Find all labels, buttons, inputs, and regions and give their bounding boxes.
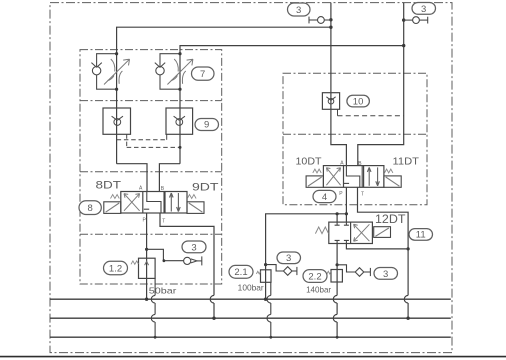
relief valve 1.2 xyxy=(139,258,156,278)
test point M2 wire xyxy=(266,265,284,271)
solenoid 9DT xyxy=(187,202,204,214)
svg-text:10DT: 10DT xyxy=(296,155,323,167)
spring left of valve 8/9 xyxy=(111,195,120,199)
svg-text:T: T xyxy=(361,191,364,197)
check valve 10 in box xyxy=(322,93,339,110)
drain wire of relief 2.1 to L rail xyxy=(267,282,271,337)
wire P of valve 10/11 down to 12DT xyxy=(345,187,347,222)
node joins on drain rail xyxy=(154,336,157,339)
throttle check valve 7 right (flow control) xyxy=(167,59,193,85)
svg-text:140bar: 140bar xyxy=(306,285,331,294)
spring right of valve 10/11 xyxy=(385,169,393,173)
right group dash-dot enclosure xyxy=(283,73,427,204)
test point 3 top-right xyxy=(404,17,428,24)
relief valve 2.1 xyxy=(261,270,272,283)
svg-text:3: 3 xyxy=(286,253,291,264)
svg-text:8: 8 xyxy=(87,203,92,214)
callout 3 (test point M3) xyxy=(374,268,398,280)
left group dash-dot enclosure xyxy=(80,50,222,284)
callout 3 (test point M2) xyxy=(277,252,301,264)
throttle check valve 7 left (flow control) xyxy=(104,59,130,85)
test point 3 top-left xyxy=(309,17,331,24)
svg-text:7: 7 xyxy=(200,69,205,80)
valve 8/9 left position crossed arrows xyxy=(124,194,140,211)
callout 3 (left test point) xyxy=(182,241,206,253)
solenoid 11DT xyxy=(384,176,401,187)
valve 10/11 left position crossed arrows xyxy=(326,168,340,186)
svg-text:3: 3 xyxy=(191,242,196,253)
solenoid 12DT xyxy=(374,227,391,238)
svg-text:3: 3 xyxy=(383,269,388,280)
svg-text:12DT: 12DT xyxy=(375,214,406,226)
wire cylinder line A (left group riser to top rail) xyxy=(117,27,331,164)
relief valve 2.2 xyxy=(331,270,342,283)
pilot operated check valve 9 right xyxy=(166,108,193,134)
wire B jog to valve port B xyxy=(159,164,180,192)
port letters valve 8/9 xyxy=(139,185,165,224)
solenoid 10DT xyxy=(306,176,323,187)
bus T rail xyxy=(50,317,451,319)
wire 12DT T port to right drop xyxy=(346,244,408,249)
node V1 line (right group A side) xyxy=(331,3,347,166)
node V2 line (right group B side) xyxy=(358,3,404,166)
svg-text:9DT: 9DT xyxy=(192,181,219,193)
sheet bottom border line xyxy=(0,356,506,358)
test point M1 wire from P xyxy=(147,249,184,260)
callout 2.2 xyxy=(303,270,327,283)
callout 9 xyxy=(195,119,219,131)
svg-text:10: 10 xyxy=(353,96,364,107)
bus L drain rail xyxy=(50,336,451,338)
svg-text:50bar: 50bar xyxy=(149,286,177,295)
test point M3 xyxy=(355,268,370,277)
wire A jog to valve port A xyxy=(117,164,147,192)
pilot line to right check valve (dashed) xyxy=(117,139,167,141)
svg-text:4: 4 xyxy=(322,192,327,203)
test point M2 xyxy=(283,267,297,276)
callout 7 xyxy=(192,67,215,80)
spring left of valve 10/11 xyxy=(313,169,321,173)
callout 3 top-right xyxy=(412,3,436,15)
callout 4 xyxy=(313,190,336,203)
callout 11 xyxy=(409,229,433,241)
solenoid 8DT xyxy=(104,202,121,214)
drain wire of relief 1.2 to L rail xyxy=(151,278,155,337)
svg-text:2.2: 2.2 xyxy=(308,271,321,282)
svg-text:8DT: 8DT xyxy=(96,179,122,191)
valve 12DT right position crossed arrows xyxy=(354,224,370,241)
directional valve 12DT body xyxy=(329,222,373,243)
callout 10 xyxy=(347,95,370,107)
callout 2.1 xyxy=(229,265,253,278)
spring relief 2.2 xyxy=(327,271,331,274)
pilot line to left check valve (dashed) xyxy=(127,134,180,147)
svg-text:1.2: 1.2 xyxy=(109,263,122,274)
valve 12DT left position blocked ports xyxy=(335,222,349,243)
svg-text:3: 3 xyxy=(421,4,426,15)
spring right of valve 8/9 xyxy=(187,195,196,199)
svg-text:2.1: 2.1 xyxy=(234,267,247,278)
port letters valve 10/11 xyxy=(339,160,364,197)
wire 12DT second top port xyxy=(336,214,338,222)
callout 3 top-left xyxy=(288,3,311,16)
valve 8/9 right position parallel arrows xyxy=(170,193,181,212)
svg-text:11: 11 xyxy=(416,230,426,241)
valve 10/11 right position parallel arrows xyxy=(367,167,379,185)
outer dash-dot frame xyxy=(50,3,452,353)
directional valve 8DT/9DT body xyxy=(121,192,187,214)
pilot operated check valve 9 left xyxy=(103,108,131,134)
directional valve 10DT/11DT body xyxy=(323,166,384,188)
spring left of valve 12DT xyxy=(315,227,328,234)
wire 12DT left port down through relief 2.2 to L rail xyxy=(333,244,337,338)
wire cylinder line B (left group riser to rail 2) xyxy=(180,46,404,164)
svg-text:3: 3 xyxy=(296,5,301,16)
svg-text:T: T xyxy=(162,219,165,225)
callout 8 xyxy=(79,201,101,215)
svg-text:100bar: 100bar xyxy=(238,284,264,293)
wire P branch to relief 2.1 xyxy=(266,214,347,299)
valve 8/9 centre position xyxy=(144,192,164,214)
wire T of valve 10/11 to right drop xyxy=(358,187,409,318)
test point M3 wire xyxy=(337,265,355,272)
pilot line of check valve 10 (dashed to V2) xyxy=(337,109,339,116)
svg-text:9: 9 xyxy=(204,120,209,131)
wire P line of valve 8/9 down to P rail xyxy=(146,213,148,299)
callout 1.2 xyxy=(104,261,128,274)
wire T line of valve 8/9 to T rail xyxy=(160,213,214,318)
valve 10/11 centre position xyxy=(344,166,362,188)
test point M1 (measuring coupling) xyxy=(184,256,202,265)
spring relief 2.1 xyxy=(256,271,260,274)
bus P rail xyxy=(50,298,451,300)
svg-text:11DT: 11DT xyxy=(393,155,420,167)
spring relief 1.2 xyxy=(131,261,138,264)
